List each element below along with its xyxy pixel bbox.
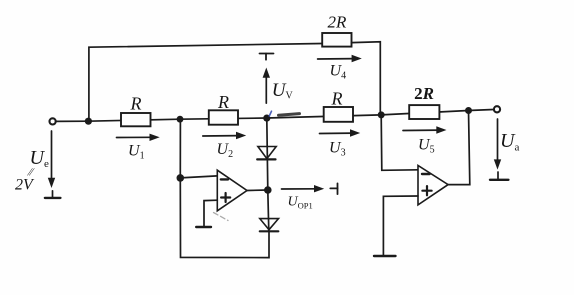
diode D2	[260, 219, 279, 232]
wire node G down to diode D2	[268, 190, 269, 231]
output terminal	[494, 106, 500, 112]
voltage arrow Ua down	[494, 119, 501, 170]
voltage arrow U5	[403, 126, 447, 133]
voltage arrow UOP1	[282, 185, 325, 192]
op-amp U1 (OP1)	[217, 170, 247, 211]
voltage arrow UV up	[263, 68, 270, 104]
svg-text:R: R	[217, 92, 229, 112]
input terminal	[50, 118, 56, 124]
node A	[85, 118, 92, 125]
voltage arrow U3	[320, 129, 361, 136]
svg-text:U5: U5	[418, 137, 435, 156]
svg-text:U2: U2	[217, 141, 234, 160]
blue tick at node C	[269, 111, 271, 116]
wire OP1 non-inverting input	[204, 200, 217, 226]
node E	[465, 107, 472, 114]
svg-text:R: R	[130, 94, 142, 114]
voltage arrow U1	[117, 134, 160, 141]
wire node F to OP1 inverting input	[180, 176, 217, 178]
wire main horizontal line	[57, 110, 494, 122]
diode D1	[257, 147, 276, 160]
resistor 2R right	[409, 105, 439, 119]
OP1 plus sign	[221, 193, 230, 202]
svg-text:U4: U4	[330, 63, 347, 82]
svg-text:R: R	[331, 88, 343, 108]
OP2 minus sign	[422, 173, 430, 175]
ground at OP2 + input	[374, 255, 396, 257]
ground at Ue	[45, 191, 61, 198]
wire OP2 non-inverting input	[383, 196, 418, 255]
svg-text:2R: 2R	[414, 84, 434, 103]
node C	[263, 115, 270, 122]
UV reference tick	[260, 54, 274, 60]
svg-text:U3: U3	[329, 139, 346, 158]
node B	[177, 116, 184, 123]
wire node A up to top rail	[89, 44, 322, 122]
wire node B down to inverting node	[179, 119, 181, 178]
ground at Ua	[490, 172, 508, 180]
svg-text:2V: 2V	[15, 177, 35, 194]
voltage arrow U2	[203, 132, 246, 139]
wire feedback loop bottom	[180, 178, 269, 258]
svg-text:Ua: Ua	[500, 130, 519, 154]
wire node C down through diodes to node G	[267, 118, 268, 190]
voltage arrow U4	[318, 55, 362, 62]
svg-text:UOP1: UOP1	[288, 195, 313, 211]
wire OP1 output to node G	[247, 189, 268, 192]
wire 2R top to corner and down to node D	[352, 42, 381, 115]
pencil dash near OP1	[214, 213, 229, 221]
node D	[378, 111, 385, 118]
OP2 plus sign	[422, 186, 431, 195]
resistor R3	[324, 107, 353, 122]
UOP1 reference tick	[330, 183, 337, 194]
OP1 minus sign	[221, 178, 228, 180]
svg-text:2R: 2R	[328, 12, 348, 31]
voltage arrow Ue down	[48, 131, 55, 188]
ground at OP1 + input	[196, 226, 211, 228]
pencil smudge on wire right of node C	[279, 114, 300, 116]
node F inverting input of OP1	[177, 174, 185, 182]
resistor 2R top	[322, 33, 351, 47]
wire OP2 output up to node E	[448, 111, 470, 185]
resistor R1	[121, 113, 151, 126]
resistor R2	[209, 110, 238, 124]
node G OP1 output	[264, 186, 272, 194]
wire node D down to OP2 inverting input	[381, 115, 418, 170]
svg-text:UV: UV	[272, 80, 294, 102]
op-amp U2 (OP2)	[418, 166, 448, 205]
svg-text:U1: U1	[128, 142, 145, 161]
